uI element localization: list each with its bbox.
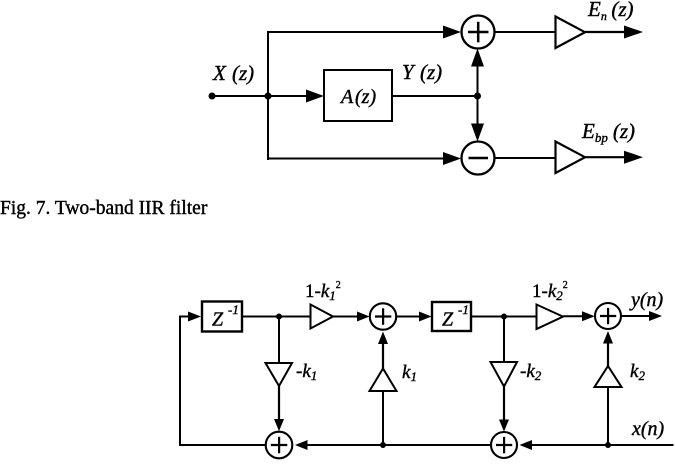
wire: first delay output to gain t1: [242, 316, 311, 318]
svg-text:En(z): En(z): [587, 0, 634, 23]
svg-text:X: X: [212, 61, 227, 85]
wire: junction up into gain k1: [382, 390, 384, 445]
adder B1 plus circle: [266, 432, 293, 459]
wire: x(n) input from right into adder B2: [520, 440, 674, 450]
gain 1-k2^2 triangle: [537, 305, 564, 330]
wire: adder T1 into second delay: [396, 312, 431, 322]
gain k2 triangle up: [595, 366, 622, 387]
svg-text:(z): (z): [420, 60, 442, 84]
wire: gain k1 into adder T1: [378, 332, 388, 369]
block A(z): [324, 70, 392, 121]
wire: junction up into gain k2: [607, 386, 609, 445]
block Z^-1 second delay: [432, 302, 471, 331]
gain -k1 triangle down: [266, 363, 293, 386]
adder T1 plus circle: [370, 303, 396, 329]
node: junction after first delay: [276, 314, 282, 320]
node: branch junction on input line: [265, 93, 272, 100]
gain 1-k1^2 triangle: [311, 305, 334, 329]
wire: junction down into gain -k2: [503, 317, 505, 364]
wire: top output arrow E_n: [585, 26, 643, 39]
wire: gain k2 into adder T2: [603, 331, 613, 366]
node: junction on bottom wire for k1: [380, 442, 386, 448]
wire: gain -k1 into adder B1: [274, 386, 284, 431]
svg-text:k1: k1: [402, 362, 417, 384]
buffer amp bottom: [556, 142, 586, 174]
wire: second delay output to gain t2: [471, 316, 537, 318]
svg-text:(z): (z): [355, 86, 376, 108]
svg-text:Y: Y: [402, 60, 416, 84]
wire: input X(z) to branch junction: [212, 95, 269, 97]
svg-text:1-k22: 1-k22: [532, 280, 568, 303]
wire: minus adder to bottom buffer: [495, 157, 557, 159]
adder B2 plus circle: [491, 432, 517, 458]
gain -k2 triangle down: [491, 362, 518, 387]
adder: minus summing circle: [462, 142, 495, 175]
svg-text:-k1: -k1: [296, 361, 317, 383]
wire: feedback from bottom adder B1 left and up to delay input: [180, 312, 266, 446]
node: junction on Y(z) line: [474, 93, 481, 100]
svg-text:Z: Z: [212, 309, 224, 331]
svg-text:(z): (z): [232, 61, 254, 85]
wire: y(n) output arrow: [621, 311, 662, 321]
wire: gain t2 into adder T2: [563, 311, 595, 321]
wire: plus adder to top buffer: [495, 31, 557, 33]
wire: gain -k2 into adder B2: [499, 387, 509, 432]
svg-text:x(n): x(n): [631, 418, 665, 440]
wire: branch junction into A(z) block: [268, 90, 324, 103]
wire: gain t1 into adder T1: [333, 312, 370, 322]
wire: Y(z) from A(z) block to junction: [392, 95, 478, 97]
adder: plus summing circle: [462, 16, 495, 49]
svg-text:Z: Z: [442, 309, 454, 331]
node: X(z) input terminal dot: [209, 93, 216, 100]
wire: top branch into plus adder: [267, 26, 461, 39]
svg-text:1-k12: 1-k12: [305, 280, 341, 303]
wire: vertical down into minus adder: [471, 96, 484, 142]
wire: junction down into gain -k1: [278, 317, 280, 365]
svg-text:-1: -1: [228, 302, 239, 317]
svg-text:-1: -1: [458, 302, 469, 317]
svg-text:Fig. 7. Two-band IIR filter: Fig. 7. Two-band IIR filter: [0, 198, 208, 219]
block Z^-1 first delay: [202, 302, 242, 332]
svg-text:y(n): y(n): [629, 289, 664, 311]
buffer amp top: [556, 17, 586, 49]
svg-text:A: A: [339, 86, 354, 108]
wire: bottom output arrow E_bp: [585, 151, 643, 164]
svg-text:-k2: -k2: [520, 361, 542, 383]
wire: adder B2 output into adder B1: [295, 440, 491, 450]
node: junction after second delay: [501, 314, 507, 320]
wire: bottom branch into minus adder: [267, 152, 461, 165]
svg-text:k2: k2: [630, 361, 645, 383]
svg-text:Ebp(z): Ebp(z): [581, 119, 635, 145]
node: junction on x(n) wire for k2: [605, 442, 611, 448]
wire: vertical branch line: [267, 31, 269, 160]
adder T2 plus circle: [595, 303, 621, 329]
gain k1 triangle up: [370, 369, 397, 392]
wire: vertical up into plus adder: [471, 49, 484, 97]
